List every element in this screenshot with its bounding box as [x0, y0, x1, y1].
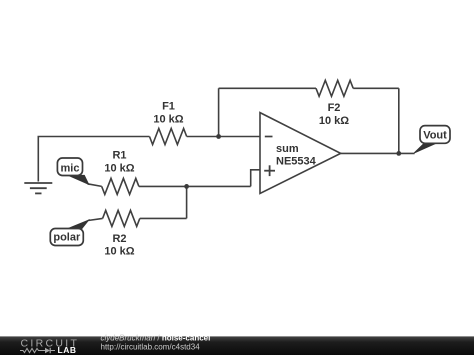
label F1 [153, 101, 183, 126]
label R2 [104, 233, 134, 258]
label F2 [319, 102, 349, 127]
svg-text:NE5534: NE5534 [276, 156, 317, 168]
svg-text:10 kΩ: 10 kΩ [153, 114, 183, 126]
flag Vout [414, 126, 450, 153]
resistor R2 [103, 210, 140, 226]
wire top feedback left [219, 87, 316, 89]
wire feedback vertical to output [398, 88, 400, 153]
svg-text:10 kΩ: 10 kΩ [319, 115, 349, 127]
wire top feedback right [353, 87, 399, 89]
node A junction dot [216, 134, 221, 139]
svg-text:LAB: LAB [58, 345, 77, 355]
label R1 [104, 150, 134, 175]
flag polar [50, 220, 88, 245]
node Vout junction dot [396, 151, 401, 156]
footer logo resistor squiggle [20, 348, 42, 352]
wire F1 to op-amp minus input [187, 136, 260, 138]
wire node B vertical [186, 186, 188, 218]
ground [24, 183, 52, 193]
svg-text:R1: R1 [112, 150, 126, 162]
footer logo diode [41, 348, 56, 353]
svg-text:polar: polar [53, 231, 81, 243]
svg-text:sum: sum [276, 143, 299, 155]
svg-text:R2: R2 [112, 233, 126, 245]
op-amp plus pin [264, 165, 275, 176]
svg-text:F2: F2 [328, 102, 341, 114]
svg-text:Vout: Vout [423, 130, 447, 142]
wire node A vertical [218, 88, 220, 136]
wire ground to F1 row [38, 137, 149, 182]
op-amp U1 body [260, 113, 341, 194]
resistor F1 [150, 129, 187, 145]
svg-text:F1: F1 [162, 101, 175, 113]
svg-text:10 kΩ: 10 kΩ [104, 246, 134, 258]
footer bar [0, 336, 474, 355]
resistor F2 [316, 80, 353, 96]
wire R1 to plus step [139, 185, 251, 187]
wire mic to R1 [88, 184, 102, 187]
svg-text:http://circuitlab.com/c4std34: http://circuitlab.com/c4std34 [101, 343, 201, 352]
wire output row [341, 152, 415, 154]
wire polar to R2 [88, 218, 103, 220]
svg-text:10 kΩ: 10 kΩ [104, 163, 134, 175]
flag mic [57, 158, 88, 184]
op-amp minus pin [265, 136, 273, 138]
op-amp U1 name and model text [276, 143, 317, 168]
wire plus input step [251, 170, 260, 187]
wire R2 row [140, 217, 187, 219]
svg-text:mic: mic [61, 162, 80, 174]
svg-text:clydeBruckman / noise-cancel: clydeBruckman / noise-cancel [101, 334, 211, 343]
node B junction dot [184, 184, 189, 189]
resistor R1 [102, 178, 139, 194]
